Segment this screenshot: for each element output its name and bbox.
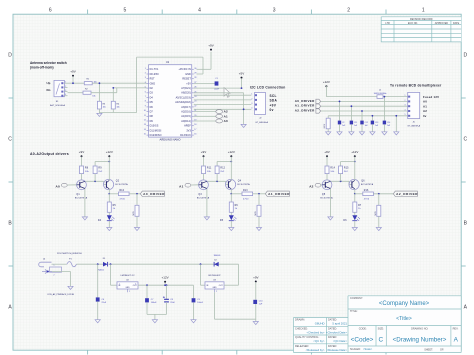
- svg-text:<Checked Date>: <Checked Date>: [326, 330, 347, 334]
- svg-text:R16: R16: [364, 190, 369, 192]
- svg-text:+12V: +12V: [162, 276, 169, 280]
- svg-text:+12V: +12V: [106, 150, 113, 154]
- svg-text:3: 3: [273, 8, 276, 14]
- svg-text:REV:: REV:: [453, 327, 459, 330]
- svg-text:28: 28: [194, 77, 196, 79]
- svg-text:18: 18: [194, 124, 196, 126]
- svg-text:3: 3: [65, 90, 66, 92]
- svg-text:SIZE:: SIZE:: [378, 327, 385, 330]
- svg-text:DRAWING NO:: DRAWING NO:: [411, 327, 428, 330]
- svg-text:R5: R5: [113, 205, 117, 207]
- svg-text:D8: D8: [150, 115, 154, 118]
- svg-text:ECO NO.: ECO NO.: [408, 22, 418, 25]
- svg-text:G8UHD: G8UHD: [315, 322, 325, 326]
- svg-text:1: 1: [145, 68, 146, 70]
- svg-text:POLYSWITCH_RXEF110: POLYSWITCH_RXEF110: [57, 253, 83, 255]
- svg-text:Q1: Q1: [76, 194, 80, 196]
- svg-text:LM2940CT-12: LM2940CT-12: [121, 275, 136, 277]
- svg-text:D10/SS: D10/SS: [150, 125, 159, 128]
- svg-text:2: 2: [145, 73, 146, 75]
- svg-text:RESET: RESET: [182, 78, 191, 81]
- svg-text:A2_DRIVER: A2_DRIVER: [396, 192, 418, 196]
- svg-text:A2: A2: [423, 109, 427, 113]
- svg-text:R7: R7: [358, 205, 362, 207]
- svg-text:OF:: OF:: [440, 349, 444, 352]
- svg-text:A1: A1: [179, 185, 183, 189]
- svg-text:D4: D4: [150, 96, 154, 99]
- svg-text:CODE:: CODE:: [359, 327, 367, 330]
- svg-text:100nF: 100nF: [151, 302, 157, 304]
- svg-text:A2_DRIVER: A2_DRIVER: [295, 108, 315, 112]
- svg-text:7: 7: [145, 96, 146, 98]
- svg-text:R13: R13: [243, 190, 248, 192]
- svg-text:CON_AX_PWRJACK_DC13B: CON_AX_PWRJACK_DC13B: [47, 293, 74, 296]
- svg-text:<Release Date>: <Release Date>: [327, 348, 348, 352]
- svg-text:A0: A0: [423, 100, 427, 104]
- svg-text:Q3: Q3: [198, 194, 202, 196]
- svg-text:3: 3: [251, 103, 252, 105]
- svg-text:+9V: +9V: [253, 275, 258, 279]
- svg-text:GND: GND: [213, 287, 218, 289]
- svg-text:MOV: MOV: [255, 210, 257, 215]
- svg-text:R6: R6: [235, 205, 239, 207]
- svg-text:2: 2: [251, 98, 252, 100]
- svg-text:C11: C11: [354, 122, 357, 124]
- svg-text:BC547BTA: BC547BTA: [361, 183, 374, 186]
- svg-text:(mom-off-mom): (mom-off-mom): [30, 66, 54, 70]
- svg-text:23: 23: [194, 101, 196, 103]
- svg-text:TITLE:: TITLE:: [350, 310, 358, 313]
- svg-text:+9V: +9V: [324, 150, 329, 154]
- svg-text:A6(D20): A6(D20): [181, 92, 191, 95]
- svg-text:BC547BTA: BC547BTA: [320, 196, 333, 199]
- svg-text:BC547BTA: BC547BTA: [237, 183, 250, 186]
- svg-text:10k: 10k: [92, 96, 95, 98]
- svg-text:Q5: Q5: [322, 194, 326, 196]
- svg-text:D3: D3: [150, 92, 154, 95]
- svg-text:BC547BTA: BC547BTA: [115, 183, 128, 186]
- svg-text:<Title>: <Title>: [396, 316, 412, 322]
- svg-text:A0-A2Output drivers: A0-A2Output drivers: [30, 152, 69, 156]
- svg-text:4700: 4700: [120, 198, 126, 200]
- svg-text:A: A: [454, 336, 459, 343]
- svg-text:16: 16: [194, 134, 196, 136]
- svg-text:R8: R8: [85, 168, 89, 170]
- svg-text:R15: R15: [344, 168, 349, 170]
- svg-text:+9V: +9V: [201, 150, 206, 154]
- svg-text:GND: GND: [150, 82, 156, 85]
- svg-text:A0: A0: [224, 119, 228, 123]
- svg-text:APPROVED: APPROVED: [435, 22, 449, 25]
- svg-text:A1_DRIVER: A1_DRIVER: [295, 104, 315, 108]
- svg-text:C: C: [378, 336, 383, 343]
- svg-text:D5: D5: [150, 101, 154, 104]
- svg-text:4: 4: [198, 8, 201, 14]
- svg-text:C2: C2: [342, 122, 344, 124]
- svg-text:GT_04B 4H-A: GT_04B 4H-A: [255, 121, 268, 124]
- svg-text:1N4001: 1N4001: [97, 269, 105, 271]
- svg-text:D0-RX0: D0-RX0: [150, 73, 160, 76]
- svg-text:ARDUINO NANO: ARDUINO NANO: [160, 138, 181, 142]
- svg-text:A4/SDA(D18): A4/SDA(D18): [175, 101, 191, 104]
- svg-text:3V3: 3V3: [186, 129, 191, 132]
- svg-text:2k2: 2k2: [220, 171, 225, 173]
- svg-text:MOV: MOV: [324, 123, 326, 128]
- svg-text:<Drawing Number>: <Drawing Number>: [393, 336, 447, 343]
- svg-text:A5/SCL(D19): A5/SCL(D19): [176, 96, 191, 99]
- svg-text:COMPANY:: COMPANY:: [350, 297, 363, 300]
- svg-text:SCL: SCL: [270, 94, 277, 98]
- svg-text:A2: A2: [309, 185, 313, 189]
- svg-text:A0_DRIVER: A0_DRIVER: [143, 192, 165, 196]
- svg-text:<Checked by>: <Checked by>: [306, 330, 324, 334]
- svg-text:4700: 4700: [364, 198, 370, 200]
- svg-text:10k: 10k: [103, 107, 106, 109]
- svg-text:100R@100MHz: 100R@100MHz: [374, 93, 387, 95]
- svg-text:D6: D6: [150, 106, 154, 109]
- svg-text:0v: 0v: [270, 108, 274, 112]
- svg-text:A1: A1: [224, 114, 228, 118]
- svg-text:D4: D4: [98, 220, 102, 222]
- svg-text:4: 4: [145, 82, 146, 84]
- svg-text:+5V: +5V: [186, 82, 191, 85]
- svg-text:1: 1: [54, 265, 55, 267]
- svg-text:A3(D17): A3(D17): [181, 106, 191, 109]
- svg-text:15: 15: [144, 134, 146, 136]
- svg-text:A1(D15): A1(D15): [181, 115, 191, 118]
- svg-text:6: 6: [145, 91, 146, 93]
- svg-text:BC547BTA: BC547BTA: [75, 196, 88, 199]
- svg-text:30: 30: [194, 68, 196, 70]
- svg-text:13: 13: [144, 124, 146, 126]
- svg-text:REVISION RECORD: REVISION RECORD: [410, 18, 433, 21]
- svg-text:14: 14: [144, 129, 146, 131]
- svg-text:A0_DRIVER: A0_DRIVER: [295, 99, 315, 103]
- svg-text:AREF: AREF: [184, 125, 191, 128]
- svg-text:<Company Name>: <Company Name>: [379, 301, 430, 307]
- svg-text:I2C LCD Connection: I2C LCD Connection: [250, 86, 285, 90]
- svg-text:2: 2: [405, 100, 406, 102]
- svg-text:Q2: Q2: [116, 180, 120, 182]
- svg-text:A2(D16): A2(D16): [181, 111, 191, 114]
- svg-text:1: 1: [422, 8, 425, 14]
- svg-text:3: 3: [145, 77, 146, 79]
- svg-text:SCALED:: SCALED:: [350, 348, 361, 351]
- svg-text:4: 4: [405, 109, 406, 111]
- svg-text:C: C: [463, 137, 467, 143]
- svg-text:11: 11: [144, 115, 146, 117]
- svg-text:Antenna selector switch: Antenna selector switch: [30, 61, 67, 65]
- svg-text:DATE: DATE: [453, 22, 460, 25]
- svg-text:10: 10: [144, 110, 146, 112]
- svg-text:24: 24: [194, 96, 196, 98]
- svg-text:5: 5: [124, 8, 127, 14]
- svg-text:2: 2: [347, 8, 350, 14]
- svg-text:100nF: 100nF: [214, 88, 220, 90]
- svg-text:DRAWN:: DRAWN:: [295, 319, 305, 322]
- svg-text:A0(D14): A0(D14): [181, 120, 191, 123]
- svg-text:D2: D2: [150, 87, 154, 90]
- svg-text:D11/MOSI: D11/MOSI: [150, 129, 162, 132]
- svg-text:22: 22: [194, 105, 196, 107]
- svg-text:Q6: Q6: [361, 180, 365, 182]
- svg-text:100nF: 100nF: [197, 302, 203, 304]
- svg-text:5 april 2021: 5 april 2021: [332, 322, 347, 326]
- svg-text:D7: D7: [150, 111, 154, 114]
- svg-text:1: 1: [251, 94, 252, 96]
- svg-text:Dn: Dn: [47, 88, 51, 92]
- svg-text:22uF: 22uF: [170, 302, 175, 304]
- svg-text:MOV: MOV: [133, 210, 135, 215]
- svg-text:R9: R9: [98, 168, 102, 170]
- svg-text:12: 12: [144, 120, 146, 122]
- svg-text:22uF: 22uF: [102, 302, 107, 304]
- svg-text:LTR: LTR: [385, 22, 390, 25]
- svg-text:1: 1: [65, 82, 66, 84]
- svg-text:MOV: MOV: [375, 210, 377, 215]
- svg-text:+12V: +12V: [228, 150, 235, 154]
- svg-text:BD750L0FP: BD750L0FP: [209, 275, 221, 277]
- svg-text:GND: GND: [185, 73, 191, 76]
- svg-text:SDA: SDA: [270, 99, 278, 103]
- svg-text:+12V: +12V: [323, 80, 330, 84]
- svg-text:GND: GND: [126, 287, 131, 289]
- svg-text:Q4: Q4: [238, 180, 242, 182]
- svg-text:3: 3: [405, 105, 406, 107]
- svg-text:17: 17: [194, 129, 196, 131]
- svg-text:R11: R11: [207, 168, 212, 170]
- svg-text:RST: RST: [150, 78, 156, 81]
- svg-text:10k: 10k: [117, 107, 120, 109]
- svg-text:3: 3: [135, 283, 136, 285]
- svg-text:+9V/DC IN: +9V/DC IN: [178, 68, 191, 71]
- svg-text:C14: C14: [387, 122, 390, 124]
- svg-text:A0: A0: [56, 185, 60, 189]
- svg-text:GT_06B 6H-A: GT_06B 6H-A: [407, 125, 420, 128]
- svg-text:A1: A1: [423, 104, 427, 108]
- svg-text:+9V: +9V: [70, 70, 75, 74]
- svg-text:29: 29: [194, 73, 196, 75]
- svg-text:4700: 4700: [243, 198, 249, 200]
- svg-text:Up: Up: [47, 81, 51, 85]
- svg-text:2: 2: [54, 275, 55, 277]
- svg-text:+5V: +5V: [239, 72, 244, 76]
- svg-text:A7(D21): A7(D21): [181, 87, 191, 90]
- svg-text:1: 1: [119, 283, 120, 285]
- svg-text:+12V: +12V: [351, 150, 358, 154]
- svg-text:D1-TX1: D1-TX1: [150, 68, 159, 71]
- svg-text:0v: 0v: [423, 114, 427, 118]
- svg-text:+9V: +9V: [208, 44, 213, 48]
- svg-text:SHEET:: SHEET:: [424, 349, 433, 352]
- svg-text:D6: D6: [343, 220, 347, 222]
- svg-text:R12: R12: [220, 168, 225, 170]
- svg-text:D13/SCK: D13/SCK: [180, 134, 191, 137]
- svg-text:R10: R10: [120, 190, 125, 192]
- svg-text:9: 9: [145, 105, 146, 107]
- svg-text:5: 5: [405, 114, 406, 116]
- svg-text:C: C: [8, 137, 12, 143]
- svg-text:1: 1: [405, 95, 406, 97]
- svg-text:4: 4: [251, 108, 252, 110]
- svg-text:<Scale>: <Scale>: [363, 348, 373, 351]
- svg-text:To remote BCD demultiplexer: To remote BCD demultiplexer: [390, 83, 442, 87]
- svg-text:+9V: +9V: [270, 103, 277, 107]
- svg-text:<Released by>: <Released by>: [306, 348, 325, 352]
- svg-text:<QC Date>: <QC Date>: [333, 339, 348, 343]
- svg-text:2: 2: [65, 86, 66, 88]
- svg-text:2k2: 2k2: [344, 171, 349, 173]
- svg-text:A1_DRIVER: A1_DRIVER: [268, 192, 290, 196]
- svg-text:BC547BTA: BC547BTA: [197, 196, 210, 199]
- svg-text:4: 4: [65, 94, 66, 96]
- svg-text:D: D: [463, 53, 467, 59]
- svg-text:R14: R14: [330, 168, 335, 170]
- svg-text:8: 8: [145, 101, 146, 103]
- svg-text:D12/MISO: D12/MISO: [150, 134, 162, 137]
- svg-text:2k2: 2k2: [98, 171, 103, 173]
- svg-text:5: 5: [145, 87, 146, 89]
- svg-text:2: 2: [129, 291, 130, 293]
- svg-text:2: 2: [216, 291, 217, 293]
- svg-text:A2: A2: [224, 110, 228, 114]
- svg-text:D5: D5: [220, 220, 224, 222]
- svg-text:<Code>: <Code>: [351, 336, 374, 343]
- svg-text:AGT_SOK-4H-A: AGT_SOK-4H-A: [50, 104, 65, 107]
- svg-text:D9: D9: [150, 120, 154, 123]
- svg-text:<QC by>: <QC by>: [313, 339, 325, 343]
- svg-text:D: D: [8, 53, 12, 59]
- svg-text:+9V: +9V: [79, 150, 84, 154]
- svg-text:C12: C12: [365, 122, 368, 124]
- svg-text:C13: C13: [375, 122, 378, 124]
- svg-text:1N4001: 1N4001: [213, 255, 221, 257]
- svg-text:6: 6: [49, 8, 52, 14]
- svg-text:Fused 12V: Fused 12V: [423, 95, 439, 99]
